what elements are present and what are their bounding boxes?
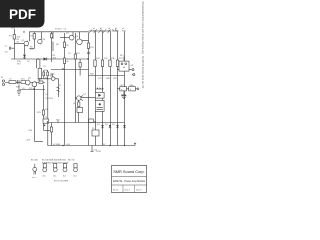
svg-text:BD 711: BD 711 [68, 160, 75, 162]
svg-text:ebc: ebc [43, 176, 46, 178]
svg-text:47u: 47u [5, 52, 8, 54]
svg-text:Downloaded from www.smr-home-t: Downloaded from www.smr-home-theatre.org… [141, 2, 145, 89]
svg-text:C13 R24: C13 R24 [45, 98, 54, 100]
svg-text:R7 4K7: R7 4K7 [55, 29, 63, 31]
svg-text:ebc: ebc [53, 176, 56, 178]
svg-text:COM: COM [96, 151, 101, 153]
svg-text:BOTTOM VIEW: BOTTOM VIEW [54, 181, 68, 183]
svg-text:BC 546: BC 546 [31, 160, 39, 162]
svg-text:BC 556 MJE 340 MJE 350: BC 556 MJE 340 MJE 350 [42, 160, 66, 162]
svg-text:SMR Sound Corp.: SMR Sound Corp. [113, 169, 145, 174]
svg-text:-45V: -45V [26, 140, 31, 142]
svg-text:Sep 1/1: Sep 1/1 [136, 190, 142, 192]
svg-text:0V RAIL: 0V RAIL [53, 143, 61, 146]
svg-text:e b c: e b c [32, 177, 36, 179]
svg-text:-45V: -45V [66, 144, 71, 146]
svg-text:GND: GND [129, 85, 134, 87]
svg-text:Scale 1: Scale 1 [125, 190, 130, 192]
svg-text:+45V: +45V [11, 28, 16, 30]
svg-text:Rev 00: Rev 00 [113, 190, 118, 192]
svg-text:PDF: PDF [9, 7, 36, 22]
svg-text:DAM732 - Power Amp Module: DAM732 - Power Amp Module [113, 180, 146, 183]
